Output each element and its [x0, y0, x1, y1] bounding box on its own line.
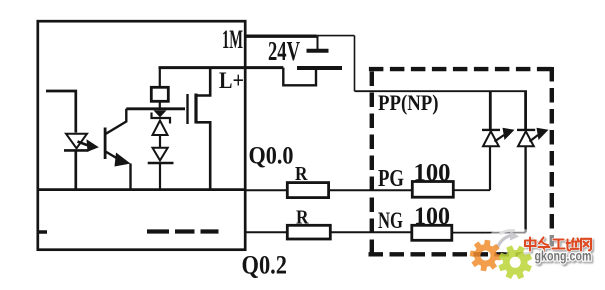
gear green [498, 245, 532, 279]
PLC output module box [38, 21, 245, 250]
wire 100#1 to LED3 [453, 189, 490, 191]
svg-text:Q0.2: Q0.2 [242, 251, 288, 280]
LED3 arrow [495, 135, 505, 142]
wire 100#2 to LED4 [452, 232, 526, 234]
svg-text:L+: L+ [219, 68, 244, 93]
Q0.0 wire [245, 189, 287, 191]
resistor 100 #1 [412, 182, 453, 198]
svg-text:PG: PG [378, 165, 404, 192]
svg-text:PP(NP): PP(NP) [378, 90, 439, 115]
resistor R1 [287, 183, 328, 198]
emitter lead [129, 164, 131, 191]
driver dashed box [369, 67, 555, 255]
gear orange [470, 240, 502, 272]
MOSFET drain lead [196, 68, 210, 96]
MOSFET Q2 [186, 94, 188, 124]
LED cathode lead [74, 152, 77, 190]
resistor R2 [287, 225, 330, 239]
TVS bidirectional zener [154, 110, 167, 117]
diode lead [159, 164, 161, 190]
phototransistor collector [106, 109, 127, 134]
watermark text 中华工控网 [525, 238, 591, 252]
svg-text:24V: 24V [268, 35, 300, 66]
ghost arrow [498, 236, 511, 248]
PP wire [355, 90, 528, 92]
square top lead [159, 68, 161, 88]
resistor 100 #2 [412, 225, 452, 240]
L+ rail [159, 66, 284, 69]
phototransistor Q1 base bar [104, 128, 107, 160]
LED4 (NG input) [524, 91, 527, 129]
watermark glow [487, 227, 605, 272]
series wire [159, 136, 161, 148]
gate resistor (square) [151, 87, 168, 101]
optocoupler LED D1 [66, 134, 87, 149]
1M wire [245, 35, 316, 38]
wire down to PP [354, 36, 356, 92]
svg-text:gkong.com: gkong.com [535, 249, 592, 264]
LED3 (PG input) [489, 91, 492, 129]
svg-text:NG: NG [378, 208, 403, 234]
diode D2 [153, 148, 168, 161]
coupling arrow [78, 142, 90, 146]
phototransistor emitter [106, 152, 120, 160]
gate node wire [126, 107, 185, 110]
Q0.2 wire [245, 231, 287, 233]
svg-text:1M: 1M [222, 25, 243, 54]
LED4 arrow [530, 135, 539, 142]
svg-text:Q0.0: Q0.0 [249, 141, 294, 170]
L+ jog to battery [283, 68, 316, 86]
ellipsis dashes [39, 230, 47, 234]
bottom bus [38, 188, 245, 191]
MOSFET source lead [196, 122, 210, 190]
battery B1 24V [317, 36, 319, 49]
input wire [46, 91, 76, 133]
square bottom lead [159, 101, 161, 109]
